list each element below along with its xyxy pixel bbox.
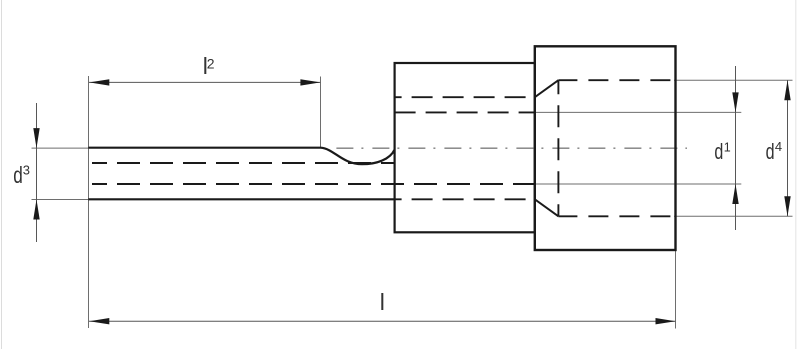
svg-text:l: l [380,289,385,315]
arrow d4 bottom (down) [784,196,790,216]
collar (big rectangle) [535,46,676,250]
arrow l right [656,318,676,324]
arrow d1 top (down) [732,92,738,112]
pin outline bottom [88,198,394,200]
d3 extension top [32,147,90,149]
extension line left (x=88) [88,76,90,328]
extension line right bottom (x=675.5) [675,250,677,329]
dimension line l [89,320,676,322]
sleeve (middle rectangle) [395,63,535,232]
svg-text:d: d [13,162,23,188]
hidden line: sleeve bore top inner (d1 top) [395,111,535,113]
extension line l2 right (x=320) [320,77,322,149]
dimension line d3 [36,103,38,242]
d1 extension top [536,111,742,113]
hidden line: pin bore top [92,162,394,164]
d4 extension bottom [674,215,793,217]
d1 extension bottom [536,183,742,185]
hidden line: sleeve bore top outer [395,96,535,98]
arrow d3 bottom (up) [33,200,39,220]
svg-text:1: 1 [724,141,731,155]
chamfer bottom [535,199,559,216]
dimension line l2 [89,81,320,83]
page left faint border [1,0,3,349]
hidden line: collar bore top [558,79,674,81]
arrow d4 top (up) [784,80,790,100]
arrow l2 right [300,79,320,85]
hidden line: collar bore vertical [557,80,559,216]
arrow l2 left [89,79,109,85]
page right faint border [795,0,797,349]
dimension line d4 [787,80,789,216]
hidden line: collar bore bottom [558,215,674,217]
d4 extension top [674,79,793,81]
svg-text:d: d [766,141,775,165]
svg-text:3: 3 [23,162,30,177]
arrow d3 top (down) [33,128,39,148]
chamfer top [535,80,559,97]
d3 extension bottom [32,199,90,201]
pin outline top + transition curve [88,148,394,165]
dimension line d1 [735,66,737,230]
centerline (axis) [336,147,687,149]
hidden line: bore (d1 bottom) [92,183,534,185]
arrow l left [89,318,109,324]
svg-text:d: d [714,141,723,165]
svg-text:2: 2 [207,55,215,71]
hidden line: sleeve bore bottom [395,198,535,200]
arrow d1 bottom (up) [732,184,738,204]
svg-text:4: 4 [775,139,782,154]
